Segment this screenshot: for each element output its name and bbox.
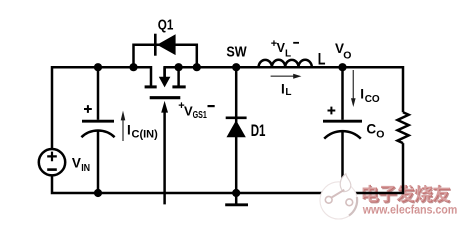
watermark logo (320, 174, 357, 219)
svg-text:V: V (184, 104, 193, 119)
label VGS1 (178, 100, 214, 120)
wire: Q1 body diode loop (134, 45, 197, 67)
svg-text:O: O (376, 129, 384, 141)
label VO (335, 41, 351, 62)
wire: left branch, input rail to Q1 drain (52, 67, 151, 149)
label IC(IN) (127, 122, 158, 140)
svg-text:SW: SW (226, 43, 247, 60)
svg-text:I: I (127, 122, 131, 137)
resistor load (398, 112, 409, 143)
capacitor CIN plates (81, 105, 114, 137)
svg-text:I: I (281, 81, 285, 96)
inductor L (259, 60, 312, 67)
label CO (366, 121, 384, 140)
junction: CIN bottom node (94, 189, 102, 197)
label VL (271, 38, 299, 60)
wire: D1 branch SW to ground (235, 67, 238, 193)
node SW (232, 63, 240, 71)
svg-text:Q1: Q1 (158, 16, 174, 33)
label VIN (72, 156, 90, 175)
ground (225, 193, 248, 205)
svg-text:CO: CO (365, 94, 380, 105)
junction: D1 ground node (232, 189, 240, 197)
node VO (338, 63, 346, 71)
junction: CIN top node (94, 63, 102, 71)
svg-text:L: L (285, 49, 291, 60)
wire: source rail from MOSFET to output corner and down to load (165, 67, 403, 112)
junction: body diode anode node (129, 63, 137, 71)
watermark url (361, 204, 457, 217)
label IL (281, 81, 292, 98)
svg-text:O: O (343, 50, 351, 62)
svg-text:L: L (318, 50, 326, 69)
voltage source VIN (39, 149, 65, 175)
Q1 body diode (155, 34, 175, 56)
junction: body diode cathode node (193, 63, 201, 71)
transistor Q1 MOSFET (145, 67, 186, 98)
watermark text 电子发烧友 (364, 186, 452, 204)
junction: CO bottom node (338, 189, 346, 197)
wire: output capacitor top lead (341, 67, 344, 120)
current arrow IC(IN) (121, 111, 126, 141)
current arrow ICO (351, 70, 356, 107)
label ICO (360, 86, 380, 105)
svg-text:C(IN): C(IN) (132, 128, 159, 140)
svg-text:GS1: GS1 (193, 108, 207, 120)
svg-text:L: L (285, 87, 291, 98)
svg-text:IN: IN (81, 163, 90, 175)
svg-text:V: V (72, 156, 81, 171)
wire: bottom ground rail (52, 143, 403, 193)
diode D1 (226, 118, 247, 137)
svg-text:I: I (360, 86, 364, 101)
wire: input capacitor top lead (97, 67, 100, 120)
gate drive arrow VGS1 (161, 101, 168, 204)
wire: output capacitor bottom lead (341, 132, 344, 194)
svg-text:D1: D1 (251, 122, 266, 141)
svg-text:C: C (366, 121, 376, 136)
current arrow IL (271, 74, 302, 79)
junction: Q1 source node (175, 63, 183, 71)
capacitor CO plates (323, 107, 362, 139)
svg-text:www.elecfans.com: www.elecfans.com (361, 204, 456, 216)
wire: input capacitor bottom lead (97, 132, 100, 194)
